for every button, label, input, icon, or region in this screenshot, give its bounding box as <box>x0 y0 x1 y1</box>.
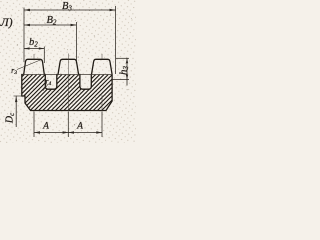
body outline (teeth, grooves, faces) <box>22 59 112 110</box>
paper background <box>0 0 136 143</box>
dimension h3 (right side, vertical) <box>112 58 130 85</box>
svg-text:A: A <box>42 122 49 132</box>
centerlines of teeth <box>34 54 102 112</box>
dimension A (left) and A (right) <box>34 112 102 138</box>
B3 dimension line <box>24 9 116 11</box>
dimension b2 <box>24 47 44 64</box>
dimension B2 <box>24 22 77 62</box>
label r4 with leader <box>43 84 48 91</box>
left extension line (shared B3/B2/b2) <box>23 8 25 63</box>
label r3 with leader <box>17 60 42 70</box>
dimension Dc (bottom left, vertical arrow up) <box>14 96 23 127</box>
svg-text:Л): Л) <box>0 15 13 29</box>
svg-text:A: A <box>76 122 83 132</box>
right extension line B3 <box>115 6 117 74</box>
hatching of sectioned body <box>0 75 146 111</box>
paper noise specks <box>11 10 132 126</box>
reference line across (pitch line) <box>22 74 112 76</box>
dimension B3 (overall width, top) <box>24 6 116 74</box>
